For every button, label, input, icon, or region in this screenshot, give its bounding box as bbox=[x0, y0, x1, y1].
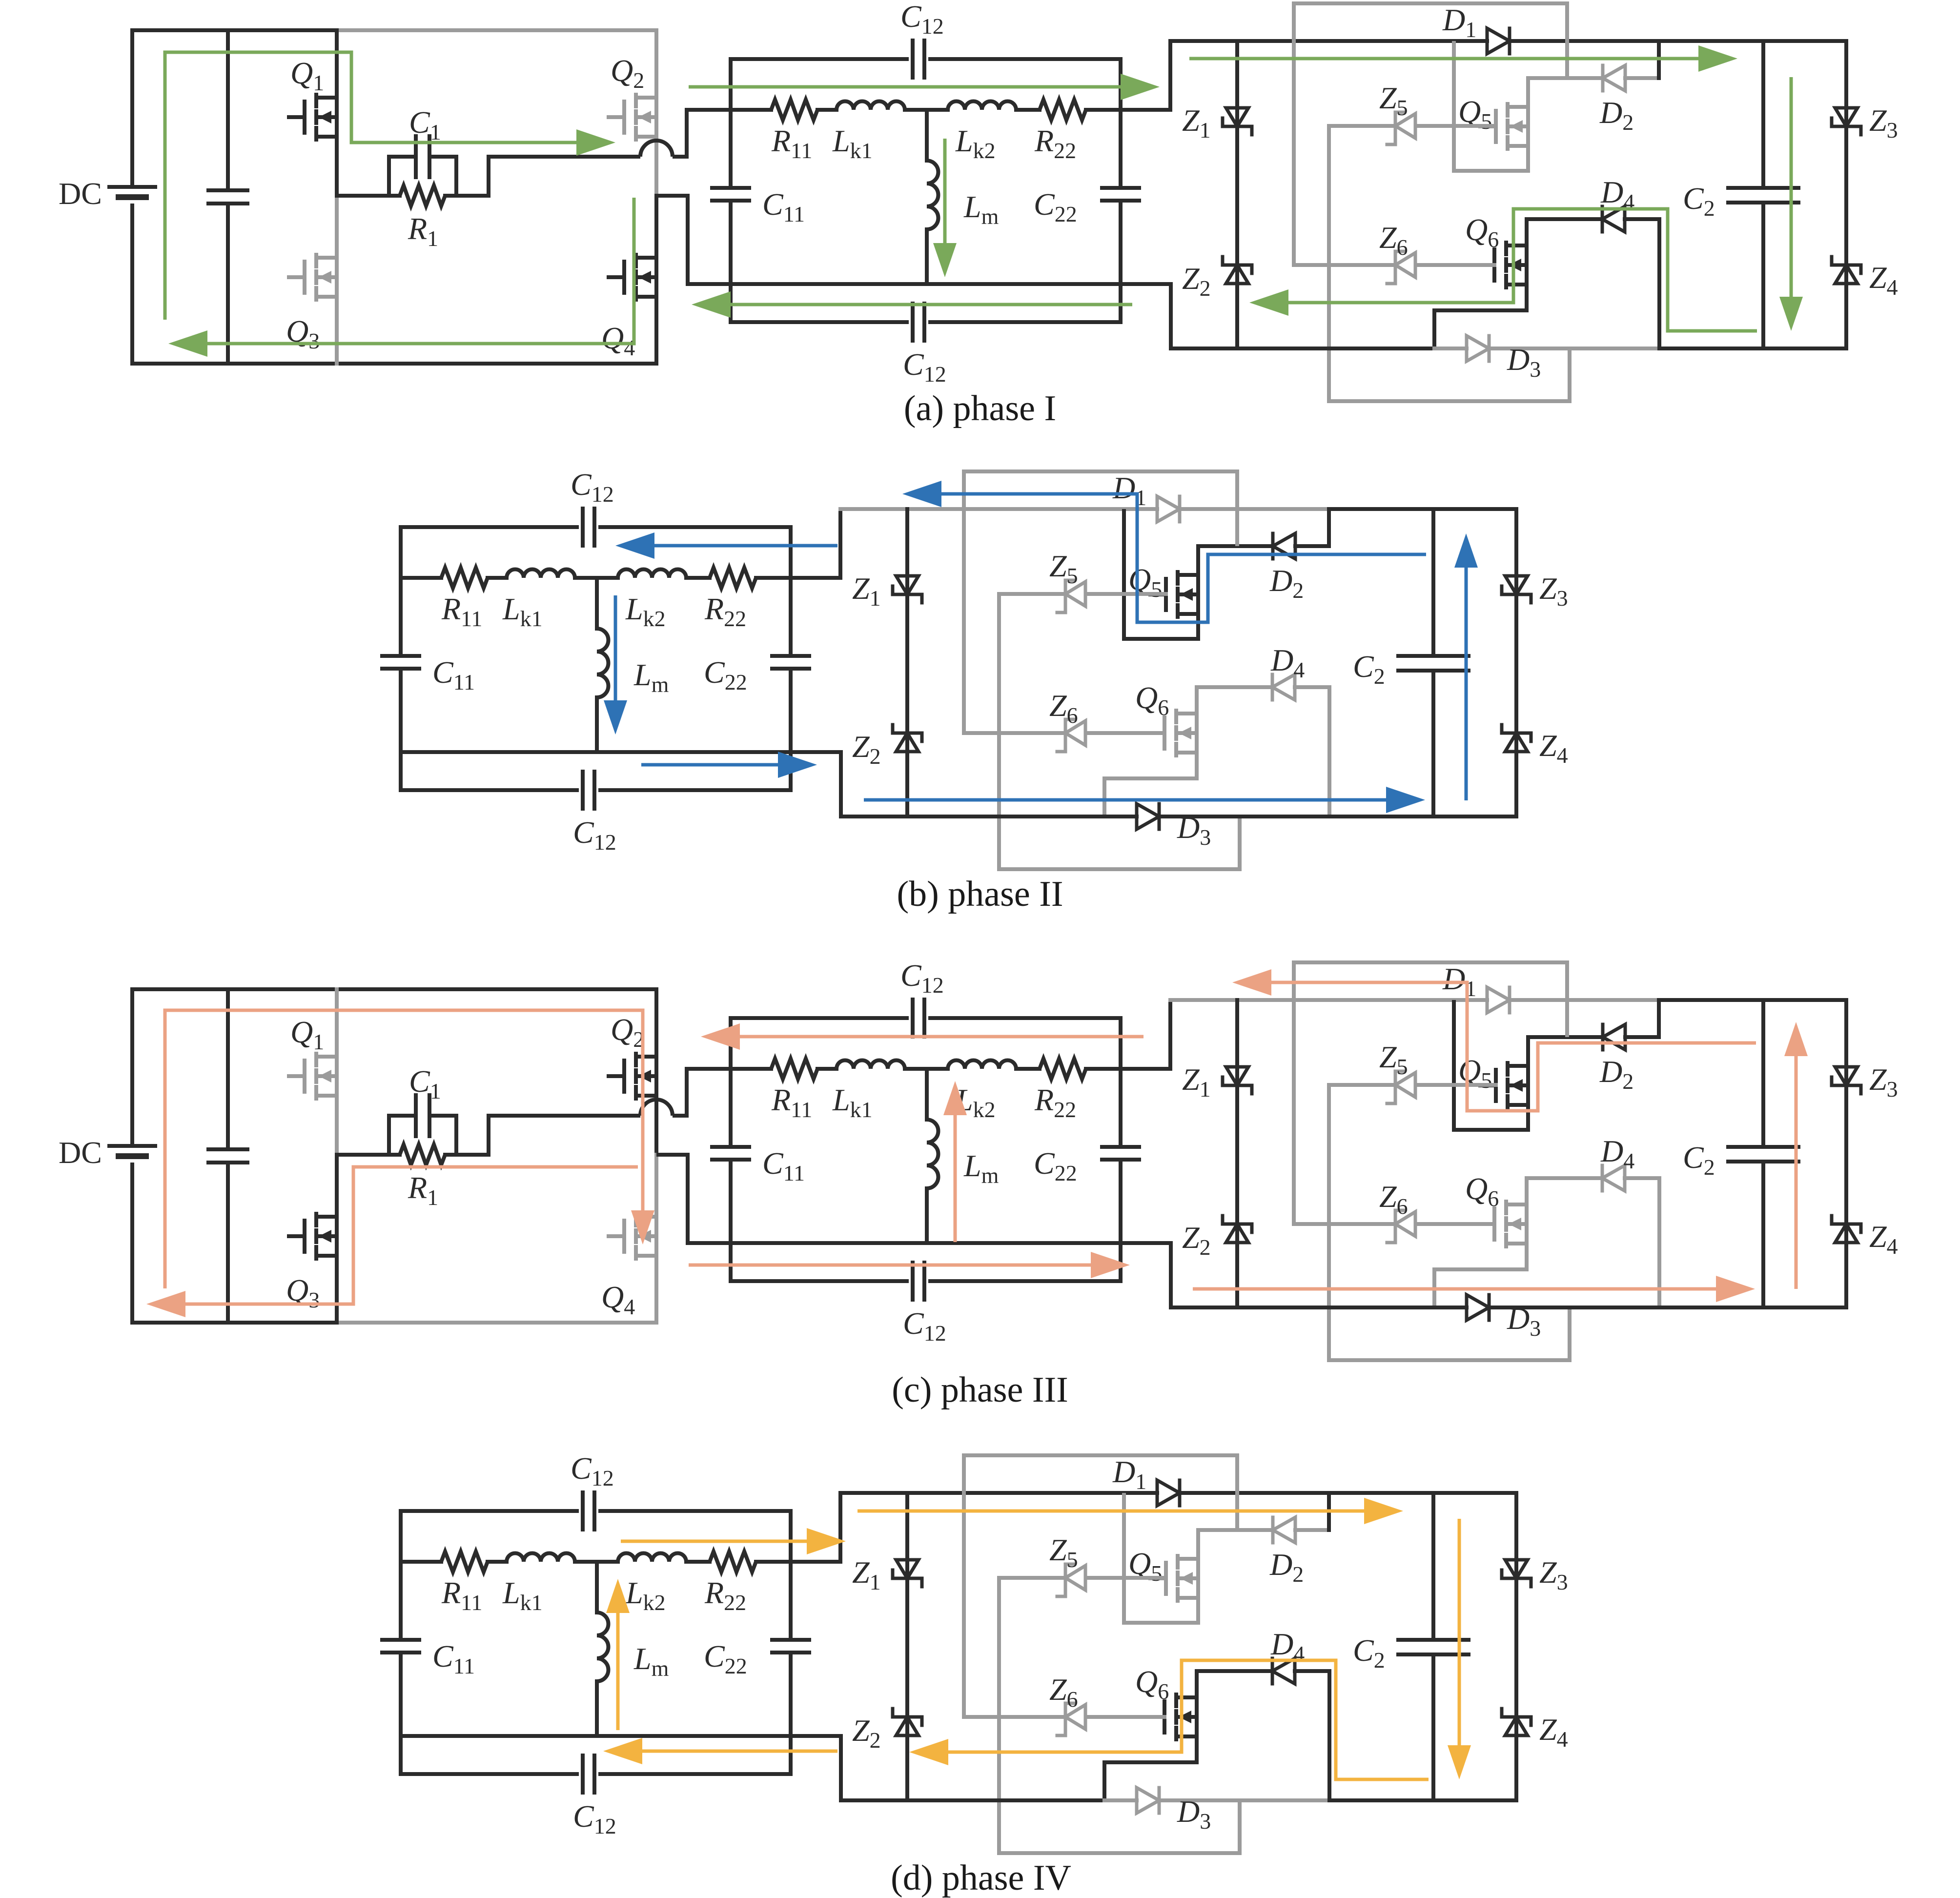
capacitor C1 (phase a) bbox=[414, 136, 418, 177]
wire rectifier bottom rail right (phase d) bbox=[1329, 1798, 1516, 1802]
wire hump to tank input (phase c) bbox=[673, 1069, 731, 1116]
transistor Q6 (phase d) bbox=[1163, 1701, 1166, 1733]
capacitor input filter (phase a) bbox=[208, 188, 247, 192]
capacitor C11 (phase c) bbox=[712, 1145, 749, 1149]
thyristor Z6 (phase a) bbox=[1394, 251, 1397, 279]
capacitor C11 (phase d) bbox=[382, 1638, 419, 1642]
capacitor C11 (phase b) bbox=[382, 654, 419, 658]
wire Q1 drain (phase c) bbox=[335, 989, 339, 1057]
wire Q6 source detour (phase d) bbox=[1104, 1736, 1197, 1800]
thyristor Z1 (phase d) bbox=[896, 1560, 919, 1578]
thyristor Z3 (phase b) bbox=[1505, 576, 1528, 594]
wire bridge top edge right (phase c) bbox=[337, 987, 656, 991]
wire riser to crossover (phase a) bbox=[489, 157, 640, 196]
capacitor input filter (phase c) bbox=[208, 1147, 247, 1151]
wire (phase c) bbox=[1016, 1067, 1040, 1071]
wire current path arrow (phase a, tank bottom, green) bbox=[731, 303, 1132, 306]
wire node A to R1 (phase a) bbox=[337, 194, 400, 198]
wire to center node (phase c) bbox=[905, 1067, 948, 1071]
wire rectifier top rail mid (phase b) bbox=[1180, 507, 1329, 511]
wire D4 branch (phase b) bbox=[1197, 685, 1272, 689]
wire D2 branch (phase d) bbox=[1198, 1528, 1273, 1532]
wire tank bottom edge (phase c) bbox=[731, 1279, 907, 1283]
wire current path arrow (phase d, rectifier top, yellow) bbox=[857, 1510, 1364, 1513]
resistor R11 (phase a) bbox=[771, 100, 817, 120]
wire tank bottom edge (phase a) bbox=[731, 320, 907, 324]
wire tank right edge (phase d) bbox=[789, 1511, 793, 1640]
inductor Lk2 (phase b) bbox=[618, 570, 686, 578]
diode D4 (phase b) bbox=[1271, 674, 1274, 700]
wire Q4 source (phase c) bbox=[654, 1256, 658, 1323]
thyristor Z2 (phase a) bbox=[1223, 264, 1252, 267]
transistor Q6 (phase c) bbox=[1492, 1208, 1496, 1240]
wire current path arrow (phase c, D2-Q5, orange) bbox=[1271, 982, 1756, 1111]
wire rectifier bottom rail right (phase a) bbox=[1659, 347, 1846, 350]
transistor Q5 (phase a) bbox=[1494, 111, 1498, 142]
transistor Q6 (phase b) bbox=[1163, 717, 1166, 749]
wire Z5 to Q5 gate (phase d) bbox=[1087, 1576, 1166, 1580]
capacitor C22 (phase b) bbox=[772, 654, 809, 658]
wire tank bottom rail (phase a) bbox=[731, 282, 1121, 286]
wire tank outer loop top edge (phase b) bbox=[401, 525, 577, 529]
wire tank outer loop top edge (phase a) bbox=[731, 57, 907, 61]
diode D2 (phase a) bbox=[1601, 65, 1605, 91]
inductor Lm (phase c) bbox=[927, 1120, 939, 1188]
wire tank output upper to rectifier (phase a) bbox=[1121, 41, 1170, 110]
wire tank right edge (phase a) bbox=[1119, 59, 1123, 188]
wire tank output lower to rectifier (phase d) bbox=[791, 1736, 841, 1800]
wire current path arrow (phase b, tank bottom, blue) bbox=[641, 763, 778, 767]
diode D2 (phase b) bbox=[1271, 533, 1275, 559]
wire node A vertical (phase c) bbox=[335, 1096, 339, 1155]
wire Z5 left (phase c) bbox=[1329, 1083, 1395, 1087]
wire DC source branch (phase c) bbox=[130, 989, 134, 1146]
wire Z5 to Q5 gate (phase c) bbox=[1417, 1083, 1496, 1087]
wire D2 anode to top rail (phase c) bbox=[1657, 1000, 1661, 1037]
thyristor Z4 (phase b) bbox=[1502, 732, 1531, 735]
inductor Lm (phase b) bbox=[597, 629, 609, 697]
wire Z6 left (phase d) bbox=[964, 1715, 1065, 1719]
thyristor Z5 (phase b) bbox=[1064, 580, 1067, 608]
wire current path arrow (phase a, Q4 return, green) bbox=[207, 198, 634, 344]
wire Z6 gate loop (phase a) bbox=[1294, 3, 1567, 265]
svg-text:DC: DC bbox=[59, 176, 102, 211]
wire Z1-Z2 branch (phase c) bbox=[1235, 1000, 1239, 1307]
wire Z6 to Q6 gate (phase a) bbox=[1417, 263, 1494, 267]
wire tank outer loop top edge (phase c) bbox=[731, 1016, 907, 1020]
thyristor Z4 (phase a) bbox=[1832, 264, 1861, 267]
wire rectifier right edge (phase a) bbox=[1844, 41, 1848, 348]
wire Q6 source detour (phase c) bbox=[1434, 1244, 1527, 1307]
wire current path arrow (phase b, output, blue) bbox=[1465, 568, 1468, 800]
wire crossover hump (phase a) bbox=[640, 141, 673, 157]
wire C1 branch (phase a) bbox=[389, 155, 416, 159]
wire DC source branch (phase a) bbox=[130, 30, 134, 187]
wire node B to tank (phase a) bbox=[656, 196, 731, 284]
transistor Q4 (phase a) bbox=[622, 262, 626, 293]
wire current path arrow (phase a, output, green) bbox=[1790, 77, 1793, 297]
thyristor Z3 (phase c) bbox=[1835, 1067, 1858, 1085]
wire D2 branch (phase a) bbox=[1528, 76, 1603, 80]
wire to center node (phase b) bbox=[575, 576, 618, 580]
wire C1 bracket left (phase c) bbox=[387, 1116, 391, 1155]
wire (phase d) bbox=[488, 1560, 507, 1564]
capacitor C22 (phase d) bbox=[772, 1638, 809, 1642]
diode D2 (phase c) bbox=[1601, 1024, 1605, 1050]
wire to center node (phase a) bbox=[905, 108, 948, 112]
wire Q5 source loop (phase a) bbox=[1454, 41, 1528, 171]
wire D2 branch (phase c) bbox=[1528, 1035, 1603, 1039]
inductor Lk2 (phase d) bbox=[618, 1553, 686, 1562]
capacitor C12 (top, phase c) bbox=[911, 1000, 915, 1037]
thyristor Z2 (phase d) bbox=[893, 1715, 922, 1719]
wire Z6 left (phase a) bbox=[1294, 263, 1395, 267]
wire tank output upper to rectifier (phase d) bbox=[791, 1493, 840, 1562]
capacitor C22 (phase c) bbox=[1102, 1145, 1139, 1149]
wire to center node (phase d) bbox=[575, 1560, 618, 1564]
wire Q4 drain (phase c) bbox=[654, 1155, 658, 1217]
wire Z6 to Q6 gate (phase b) bbox=[1087, 731, 1164, 735]
wire tank output lower to rectifier (phase a) bbox=[1121, 284, 1171, 348]
wire Z6 gate loop (phase b) bbox=[964, 471, 1237, 733]
wire Q1 drain (phase a) bbox=[335, 30, 339, 98]
wire Q5 drain (phase d) bbox=[1196, 1530, 1200, 1559]
capacitor C12 (bottom, phase a) bbox=[911, 304, 915, 341]
wire Q4 drain (phase a) bbox=[654, 196, 658, 258]
resistor R11 (phase d) bbox=[441, 1551, 488, 1572]
wire current path arrow (phase c, Lm, orange) bbox=[954, 1115, 957, 1242]
capacitor C12 (top, phase b) bbox=[581, 509, 585, 546]
transistor Q2 (phase a) bbox=[622, 102, 626, 133]
wire current path arrow (phase d, D4-Q6, yellow) bbox=[948, 1660, 1429, 1779]
diode D3 (phase c) bbox=[1467, 1295, 1489, 1320]
wire rectifier right edge (phase c) bbox=[1844, 1000, 1848, 1307]
wire rectifier right edge (phase b) bbox=[1514, 509, 1518, 816]
thyristor Z1 (phase b) bbox=[896, 576, 919, 594]
wire Q6 drain (phase a) bbox=[1525, 219, 1529, 245]
inductor Lm (phase a) bbox=[927, 161, 939, 229]
wire Q6 drain (phase d) bbox=[1195, 1671, 1199, 1697]
wire Z6 to Q6 gate (phase d) bbox=[1087, 1715, 1164, 1719]
wire element row left (phase c) bbox=[731, 1067, 771, 1071]
resistor R22 (phase c) bbox=[1040, 1059, 1086, 1079]
wire rectifier top rail right (phase d) bbox=[1329, 1491, 1516, 1495]
wire D4 to bottom rail (phase a) bbox=[1657, 219, 1661, 348]
capacitor C1 (phase c) bbox=[414, 1095, 418, 1136]
wire Q5 source loop (phase c) bbox=[1454, 1000, 1528, 1130]
wire row right (phase a) bbox=[1086, 108, 1121, 112]
resistor R22 (phase b) bbox=[710, 568, 756, 588]
wire tank right edge (phase c) bbox=[1119, 1018, 1123, 1147]
capacitor C22 (phase a) bbox=[1102, 186, 1139, 190]
wire current path arrow (phase b, rectifier bottom, blue) bbox=[864, 798, 1386, 802]
wire tank output lower to rectifier (phase c) bbox=[1121, 1243, 1171, 1307]
wire tank left edge (phase a) bbox=[729, 59, 733, 188]
wire current path arrow (phase a, rectifier top, green) bbox=[1189, 57, 1698, 61]
thyristor Z4 (phase d) bbox=[1502, 1715, 1531, 1719]
wire Z6 left (phase c) bbox=[1294, 1222, 1395, 1226]
wire current path arrow (phase b, Lm, blue) bbox=[614, 595, 617, 700]
wire tank left edge (phase d) bbox=[399, 1511, 403, 1640]
wire Q3 drain (phase c) bbox=[335, 1155, 339, 1217]
inductor Lk1 (phase a) bbox=[837, 102, 905, 110]
wire D4 branch (phase a) bbox=[1527, 217, 1602, 221]
wire Q6 drain (phase b) bbox=[1195, 687, 1199, 714]
capacitor C11 (phase a) bbox=[712, 186, 749, 190]
wire rectifier top rail mid (phase c) bbox=[1510, 998, 1659, 1002]
wire tank outer loop top edge (phase d) bbox=[401, 1509, 577, 1513]
wire bridge top edge right (phase a) bbox=[337, 28, 656, 32]
wire current path arrow (phase c, output, orange) bbox=[1795, 1056, 1798, 1289]
wire current path arrow (phase c, tank bottom, orange) bbox=[689, 1264, 1091, 1267]
wire crossover hump (phase c) bbox=[640, 1100, 673, 1116]
wire current path arrow (phase c, R1 return, orange) bbox=[185, 1167, 638, 1304]
diode D2 (phase d) bbox=[1271, 1517, 1275, 1543]
transistor Q5 (phase d) bbox=[1164, 1563, 1168, 1594]
wire element row left (phase a) bbox=[731, 108, 771, 112]
wire node B vertical (phase a) bbox=[654, 137, 658, 196]
diode D4 (phase c) bbox=[1601, 1165, 1604, 1191]
wire tank bottom edge (phase d) bbox=[401, 1772, 577, 1776]
wire D2 anode to top rail (phase b) bbox=[1327, 509, 1331, 546]
wire current path arrow (phase c, bridge loop, orange) bbox=[165, 1010, 643, 1288]
thyristor Z4 (phase c) bbox=[1832, 1223, 1861, 1226]
wire current path arrow (phase b, D2-Q5, blue) bbox=[941, 494, 1426, 622]
thyristor Z5 (phase c) bbox=[1394, 1071, 1397, 1099]
wire bridge bottom edge left (phase a) bbox=[132, 362, 337, 366]
wire Z5 gate loop (phase d) bbox=[999, 1578, 1240, 1853]
wire center branch lower (phase c) bbox=[925, 1188, 929, 1243]
inductor Lk2 (phase a) bbox=[948, 102, 1016, 110]
wire rectifier top rail mid (phase d) bbox=[1180, 1491, 1329, 1495]
wire Q5 drain (phase a) bbox=[1526, 78, 1530, 107]
wire D4 to bottom rail (phase c) bbox=[1657, 1178, 1661, 1307]
wire node A to R1 (phase c) bbox=[337, 1153, 400, 1157]
capacitor C2 (phase c) bbox=[1728, 1145, 1798, 1149]
wire tank bottom rail (phase b) bbox=[401, 750, 791, 754]
wire C2 branch (phase b) bbox=[1431, 509, 1435, 656]
wire Z5 to Q5 gate (phase b) bbox=[1087, 592, 1166, 596]
svg-text:DC: DC bbox=[59, 1135, 102, 1170]
thyristor Z2 (phase c) bbox=[1223, 1223, 1252, 1226]
diode D1 (phase c) bbox=[1487, 987, 1510, 1013]
wire Q5 source loop (phase b) bbox=[1124, 509, 1198, 639]
thyristor Z3 (phase a) bbox=[1835, 108, 1858, 126]
wire row right (phase b) bbox=[756, 576, 791, 580]
wire rectifier top rail right (phase c) bbox=[1659, 998, 1846, 1002]
wire current path arrow (phase a, bridge loop, green) bbox=[165, 52, 576, 320]
wire node A vertical (phase a) bbox=[335, 137, 339, 196]
wire D2 anode to top rail (phase d) bbox=[1327, 1493, 1331, 1530]
svg-text:(a) phase I: (a) phase I bbox=[904, 388, 1056, 429]
wire Z1-Z2 branch (phase d) bbox=[905, 1493, 909, 1800]
wire (phase c) bbox=[817, 1067, 837, 1071]
wire rectifier top rail right (phase b) bbox=[1329, 507, 1516, 511]
wire bridge bottom edge left (phase c) bbox=[132, 1321, 337, 1325]
wire bottom rail D3 segment (phase d) bbox=[1104, 1798, 1137, 1802]
wire row right (phase d) bbox=[756, 1560, 791, 1564]
wire current path arrow (phase c, rectifier bottom, orange) bbox=[1193, 1287, 1716, 1291]
transistor Q4 (phase c) bbox=[622, 1221, 626, 1252]
wire riser to crossover (phase c) bbox=[489, 1116, 640, 1155]
wire Z6 left (phase b) bbox=[964, 731, 1065, 735]
wire D4 branch (phase c) bbox=[1527, 1176, 1602, 1180]
thyristor Z6 (phase d) bbox=[1064, 1703, 1067, 1731]
wire Z5 gate loop (phase c) bbox=[1329, 1085, 1570, 1360]
wire D4 branch (phase d) bbox=[1197, 1669, 1272, 1673]
diode D1 (phase b) bbox=[1157, 496, 1180, 522]
transistor Q3 (phase a) bbox=[303, 262, 306, 293]
inductor Lk1 (phase d) bbox=[507, 1553, 575, 1562]
transistor Q5 (phase c) bbox=[1494, 1070, 1498, 1101]
wire Z6 to Q6 gate (phase c) bbox=[1417, 1222, 1494, 1226]
transistor Q6 (phase a) bbox=[1492, 249, 1496, 281]
wire R1 right (phase a) bbox=[445, 194, 489, 198]
wire (phase a) bbox=[1016, 108, 1040, 112]
thyristor Z5 (phase a) bbox=[1394, 112, 1397, 140]
wire D2 anode to top rail (phase a) bbox=[1657, 41, 1661, 78]
wire current path arrow (phase c, tank top, orange) bbox=[740, 1035, 1143, 1039]
inductor Lm (phase d) bbox=[597, 1612, 609, 1681]
diode D4 (phase a) bbox=[1601, 206, 1604, 232]
wire tank output lower to rectifier (phase b) bbox=[791, 752, 841, 816]
wire input capacitor branch (phase a) bbox=[226, 30, 230, 190]
wire Q6 drain (phase c) bbox=[1525, 1178, 1529, 1204]
wire node B to tank (phase c) bbox=[656, 1155, 731, 1243]
wire bridge top edge left (phase c) bbox=[132, 987, 337, 991]
diode D1 (phase a) bbox=[1487, 28, 1510, 54]
wire Q3 drain (phase a) bbox=[335, 196, 339, 258]
wire rectifier top rail left (phase a) bbox=[1170, 39, 1487, 43]
wire center branch lower (phase a) bbox=[925, 229, 929, 284]
wire C1 bracket left (phase a) bbox=[387, 157, 391, 196]
wire rectifier bottom rail left (phase b) bbox=[841, 815, 1137, 818]
capacitor C12 (bottom, phase c) bbox=[911, 1263, 915, 1300]
wire tank bottom rail (phase d) bbox=[401, 1734, 791, 1738]
wire Q5 drain (phase c) bbox=[1526, 1037, 1530, 1066]
wire element row left (phase d) bbox=[401, 1560, 441, 1564]
wire (phase a) bbox=[817, 108, 837, 112]
wire Z1-Z2 branch (phase a) bbox=[1235, 41, 1239, 348]
wire Z5 gate loop (phase b) bbox=[999, 594, 1240, 869]
transistor Q1 (phase a) bbox=[303, 102, 306, 133]
wire Z5 left (phase a) bbox=[1329, 124, 1395, 128]
wire C2 branch (phase c) bbox=[1761, 1000, 1765, 1147]
wire rectifier bottom rail right (phase c) bbox=[1489, 1306, 1846, 1309]
wire tank left edge (phase c) bbox=[729, 1018, 733, 1147]
svg-text:(b) phase II: (b) phase II bbox=[897, 874, 1063, 914]
wire bottom rail D3 segment (phase a) bbox=[1434, 347, 1467, 350]
wire current path arrow (phase a, tank top, green) bbox=[689, 85, 1121, 89]
wire bridge bottom edge right (phase c) bbox=[337, 1321, 656, 1325]
wire (phase d) bbox=[686, 1560, 710, 1564]
wire rectifier bottom rail left (phase d) bbox=[841, 1798, 1104, 1802]
wire tank right edge (phase b) bbox=[789, 527, 793, 656]
thyristor Z2 (phase b) bbox=[893, 732, 922, 735]
wire center branch lower (phase b) bbox=[595, 697, 599, 752]
wire element row left (phase b) bbox=[401, 576, 441, 580]
wire current path arrow (phase a, D4-Q6, green) bbox=[1288, 209, 1757, 331]
wire D2 branch (phase b) bbox=[1198, 544, 1273, 548]
capacitor C2 (phase b) bbox=[1398, 654, 1469, 658]
transistor Q1 (phase c) bbox=[303, 1061, 306, 1092]
capacitor C12 (bottom, phase d) bbox=[581, 1755, 585, 1793]
resistor R22 (phase d) bbox=[710, 1551, 756, 1572]
wire center branch (phase b) bbox=[595, 578, 599, 629]
inductor Lk1 (phase c) bbox=[837, 1061, 905, 1069]
thyristor Z6 (phase b) bbox=[1064, 719, 1067, 747]
capacitor C2 (phase d) bbox=[1398, 1638, 1469, 1642]
wire rectifier bottom rail right (phase b) bbox=[1159, 815, 1516, 818]
diode D3 (phase a) bbox=[1467, 336, 1489, 361]
wire bridge top edge left (phase a) bbox=[132, 28, 337, 32]
wire (phase b) bbox=[686, 576, 710, 580]
wire row right (phase c) bbox=[1086, 1067, 1121, 1071]
wire current path arrow (phase d, tank bottom, yellow) bbox=[642, 1750, 837, 1753]
capacitor C12 (top, phase d) bbox=[581, 1492, 585, 1530]
wire D4 to bottom rail (phase b) bbox=[1327, 687, 1331, 816]
wire center branch (phase d) bbox=[595, 1562, 599, 1612]
wire Z5 to Q5 gate (phase a) bbox=[1417, 124, 1496, 128]
wire rectifier right edge (phase d) bbox=[1514, 1493, 1518, 1800]
svg-text:(d) phase IV: (d) phase IV bbox=[891, 1858, 1071, 1898]
thyristor Z1 (phase a) bbox=[1226, 108, 1248, 126]
battery DC source (phase a) bbox=[109, 185, 155, 189]
diode D3 (phase d) bbox=[1137, 1788, 1159, 1813]
transistor Q3 (phase c) bbox=[303, 1221, 306, 1252]
wire hump to tank input (phase a) bbox=[673, 110, 731, 157]
wire Q4 source (phase a) bbox=[654, 297, 658, 364]
wire C1 bracket right (phase c) bbox=[454, 1116, 458, 1155]
wire tank bottom rail (phase c) bbox=[731, 1241, 1121, 1245]
wire rectifier top rail right (phase a) bbox=[1659, 39, 1846, 43]
wire center branch (phase c) bbox=[925, 1069, 929, 1120]
wire Z5 left (phase b) bbox=[999, 592, 1065, 596]
wire rectifier top rail left (phase c) bbox=[1170, 998, 1487, 1002]
wire Z1-Z2 branch (phase b) bbox=[905, 509, 909, 816]
wire current path arrow (phase b, tank top, blue) bbox=[654, 544, 837, 548]
wire Q6 source detour (phase b) bbox=[1104, 753, 1197, 816]
transistor Q5 (phase b) bbox=[1164, 579, 1168, 610]
wire rectifier bottom rail left (phase a) bbox=[1171, 347, 1434, 350]
capacitor C2 (phase a) bbox=[1728, 186, 1798, 190]
wire C2 branch (phase a) bbox=[1761, 41, 1765, 188]
wire tank output upper to rectifier (phase c) bbox=[1121, 1000, 1170, 1069]
wire input capacitor branch (phase c) bbox=[226, 989, 230, 1149]
thyristor Z5 (phase d) bbox=[1064, 1564, 1067, 1592]
wire R1 right (phase c) bbox=[445, 1153, 489, 1157]
thyristor Z1 (phase c) bbox=[1226, 1067, 1248, 1085]
battery DC source (phase c) bbox=[109, 1144, 155, 1148]
wire Q5 source loop (phase d) bbox=[1124, 1493, 1198, 1623]
wire tank output upper to rectifier (phase b) bbox=[791, 509, 840, 578]
wire C1 branch (phase c) bbox=[389, 1114, 416, 1118]
capacitor C12 (bottom, phase b) bbox=[581, 772, 585, 809]
thyristor Z6 (phase c) bbox=[1394, 1210, 1397, 1238]
diode D1 (phase d) bbox=[1157, 1480, 1180, 1506]
svg-text:(c) phase III: (c) phase III bbox=[892, 1370, 1068, 1410]
wire bridge bottom edge right (phase a) bbox=[337, 362, 656, 366]
wire current path arrow (phase d, tank top, yellow) bbox=[621, 1540, 807, 1543]
wire Z5 left (phase d) bbox=[999, 1576, 1065, 1580]
wire Q3 source (phase a) bbox=[335, 297, 339, 364]
inductor Lk2 (phase c) bbox=[948, 1061, 1016, 1069]
wire Z6 gate loop (phase c) bbox=[1294, 962, 1567, 1224]
wire Q2 drain (phase c) bbox=[654, 989, 658, 1057]
resistor R1 (phase c) bbox=[400, 1144, 445, 1165]
wire rectifier top rail mid (phase a) bbox=[1510, 39, 1659, 43]
wire C1 bracket right (phase a) bbox=[454, 157, 458, 196]
